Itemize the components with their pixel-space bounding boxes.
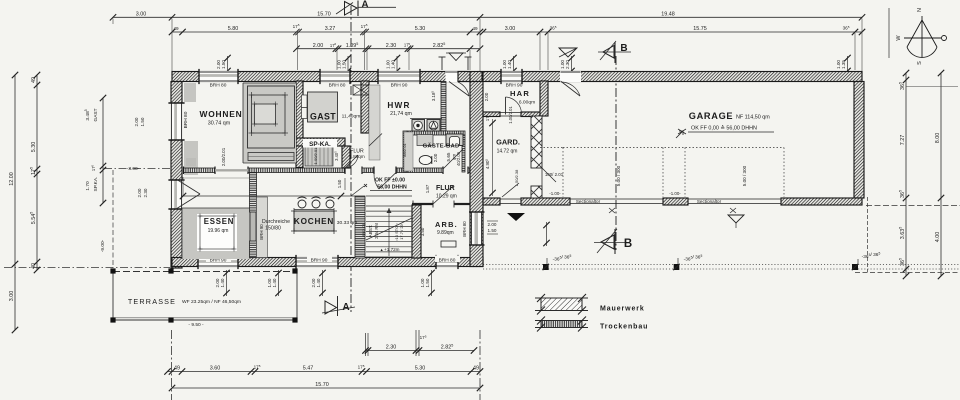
svg-text:12.00: 12.00 [9, 172, 15, 186]
svg-text:BRH 90: BRH 90 [506, 83, 523, 89]
svg-text:14.72 qm: 14.72 qm [497, 149, 518, 155]
svg-text:BRH 80: BRH 80 [183, 111, 189, 128]
svg-text:100/ 2.01: 100/ 2.01 [545, 172, 564, 177]
svg-text:NF 114,50 qm: NF 114,50 qm [736, 115, 770, 121]
svg-text:BRH 80: BRH 80 [210, 83, 227, 89]
svg-text:N: N [917, 8, 923, 12]
svg-text:HWR: HWR [387, 101, 410, 110]
svg-text:A: A [361, 0, 368, 11]
svg-text:4.00: 4.00 [935, 232, 941, 243]
svg-text:1.40: 1.40 [390, 60, 395, 69]
svg-text:BRH 80: BRH 80 [329, 83, 346, 89]
svg-text:WOHNEN: WOHNEN [200, 109, 243, 119]
svg-text:1.86qm: 1.86qm [349, 154, 364, 159]
svg-text:5.00 / 300: 5.00 / 300 [616, 165, 621, 186]
svg-text:150/80: 150/80 [265, 226, 281, 232]
svg-text:WF 23.25qm / NF 46,50qm: WF 23.25qm / NF 46,50qm [182, 299, 241, 305]
svg-text:BRH 90: BRH 90 [391, 83, 408, 89]
svg-text:BRH 80: BRH 80 [462, 221, 467, 237]
svg-text:2.00: 2.00 [484, 92, 489, 101]
svg-text:KOCHEN: KOCHEN [294, 217, 334, 226]
svg-text:▴ +1.72m: ▴ +1.72m [380, 247, 399, 252]
svg-text:2.30: 2.30 [386, 345, 397, 351]
svg-text:7.27: 7.27 [900, 135, 906, 146]
svg-text:-9.00-: -9.00- [100, 239, 106, 252]
svg-text:3.27: 3.27 [325, 26, 336, 32]
svg-text:5.65: 5.65 [446, 152, 451, 161]
svg-text:88/2.01: 88/2.01 [402, 143, 407, 157]
svg-text:3.50: 3.50 [420, 227, 425, 236]
svg-text:3.00: 3.00 [136, 12, 147, 18]
svg-text:GAST: GAST [310, 112, 336, 122]
svg-text:1.40: 1.40 [272, 278, 277, 287]
svg-text:2.34 RM: 2.34 RM [374, 223, 379, 239]
svg-text:2.30: 2.30 [386, 43, 397, 49]
svg-text:2.30: 2.30 [143, 188, 148, 197]
svg-text:1.50: 1.50 [221, 60, 226, 69]
svg-text:GAST: GAST [93, 108, 99, 121]
svg-text:SP.KA.: SP.KA. [93, 177, 99, 192]
svg-text:88/2.01: 88/2.01 [361, 223, 366, 237]
svg-text:1.87: 1.87 [425, 184, 430, 193]
svg-text:1.00/2.01: 1.00/2.01 [508, 106, 513, 124]
svg-text:3.60: 3.60 [210, 366, 221, 372]
svg-text:Trockenbau: Trockenbau [600, 324, 648, 331]
svg-text:W: W [896, 35, 902, 41]
svg-text:OK FF ±0.00: OK FF ±0.00 [375, 178, 405, 184]
svg-text:30.33 qm: 30.33 qm [337, 220, 357, 226]
svg-text:BRH 90: BRH 90 [311, 257, 328, 263]
svg-text:-1.00-: -1.00- [549, 191, 561, 196]
svg-text:SP-KA.: SP-KA. [309, 141, 331, 148]
svg-text:2.00: 2.00 [313, 43, 324, 49]
svg-text:40: 40 [31, 263, 37, 269]
svg-text:FLUR: FLUR [436, 185, 455, 192]
svg-text:ARB.: ARB. [435, 220, 458, 229]
svg-text:49: 49 [31, 77, 37, 83]
svg-text:21,74 qm: 21,74 qm [390, 111, 412, 117]
svg-text:19.48: 19.48 [661, 12, 675, 18]
svg-text:15.75: 15.75 [693, 26, 707, 32]
svg-text:17.7 / 29: 17.7 / 29 [399, 223, 404, 239]
svg-text:-1.00-: -1.00- [669, 191, 681, 196]
svg-text:Durchreiche: Durchreiche [262, 219, 290, 225]
svg-text:GARD.: GARD. [496, 138, 520, 147]
svg-text:HAR: HAR [510, 89, 530, 98]
svg-text:2.30: 2.30 [565, 60, 570, 69]
svg-text:1.50: 1.50 [140, 117, 145, 126]
svg-text:- 9.50 -: - 9.50 - [188, 322, 204, 328]
svg-text:1.50: 1.50 [425, 278, 430, 287]
svg-text:5.80: 5.80 [228, 26, 239, 32]
svg-text:1.70: 1.70 [85, 181, 91, 191]
svg-text:19.96 qm: 19.96 qm [208, 228, 229, 234]
svg-text:8.00: 8.00 [935, 133, 941, 144]
svg-text:GÄSTE-BAD: GÄSTE-BAD [423, 143, 460, 150]
svg-text:40/2.09: 40/2.09 [456, 151, 461, 166]
svg-text:GARAGE: GARAGE [689, 111, 734, 121]
svg-text:1.00/2.01: 1.00/2.01 [313, 147, 318, 164]
svg-text:S: S [917, 61, 923, 65]
svg-text:1.50: 1.50 [341, 60, 346, 69]
svg-text:49: 49 [174, 366, 180, 372]
svg-text:Sectionaltor: Sectionaltor [697, 199, 722, 204]
svg-text:1.40: 1.40 [220, 278, 225, 287]
svg-text:49: 49 [473, 366, 479, 372]
svg-text:BRH 90: BRH 90 [259, 224, 264, 240]
svg-text:6.00qm: 6.00qm [519, 100, 535, 106]
svg-text:10.29 qm: 10.29 qm [436, 194, 457, 200]
svg-text:5.30: 5.30 [415, 26, 426, 32]
svg-text:5.30: 5.30 [31, 142, 37, 153]
svg-text:A: A [342, 302, 349, 313]
svg-text:1.50: 1.50 [337, 179, 342, 188]
svg-text:5.00 / 300: 5.00 / 300 [742, 165, 747, 186]
svg-text:49: 49 [472, 26, 478, 31]
svg-text:15.70: 15.70 [315, 382, 329, 388]
svg-text:30.74 qm: 30.74 qm [208, 121, 231, 127]
svg-text:1.40: 1.40 [507, 60, 512, 69]
svg-text:OK FF 0,00 ≙ 56,00 DHHN: OK FF 0,00 ≙ 56,00 DHHN [691, 125, 757, 132]
svg-text:3.00: 3.00 [9, 291, 15, 302]
svg-text:2.00: 2.00 [134, 117, 139, 126]
svg-text:3.00: 3.00 [505, 26, 516, 32]
svg-text:B: B [620, 43, 627, 54]
svg-text:15.70: 15.70 [317, 12, 331, 18]
svg-text:5.30: 5.30 [415, 366, 426, 372]
svg-text:-3.00-: -3.00- [127, 166, 140, 172]
svg-text:9.89qm: 9.89qm [437, 230, 454, 236]
svg-text:1.40: 1.40 [316, 278, 321, 287]
svg-text:Sectionaltor: Sectionaltor [576, 199, 601, 204]
svg-text:56,00 DHHN: 56,00 DHHN [377, 185, 407, 191]
svg-text:ABST.: ABST. [368, 225, 373, 238]
svg-text:Mauerwerk: Mauerwerk [600, 306, 645, 313]
svg-text:5.47: 5.47 [303, 366, 314, 372]
svg-text:2.00: 2.00 [137, 188, 142, 197]
svg-text:BRH 80: BRH 80 [439, 257, 456, 263]
svg-text:B: B [624, 238, 632, 250]
svg-text:1.50/2.38: 1.50/2.38 [514, 169, 519, 186]
svg-text:2.00: 2.00 [488, 222, 497, 227]
svg-text:1.35: 1.35 [841, 60, 846, 69]
svg-text:TERRASSE: TERRASSE [128, 297, 176, 306]
svg-text:2.00/2.01: 2.00/2.01 [221, 147, 226, 166]
svg-text:49: 49 [173, 26, 179, 31]
svg-text:11,40qm: 11,40qm [342, 114, 361, 120]
svg-text:1.50: 1.50 [488, 228, 497, 233]
svg-text:2.00: 2.00 [433, 153, 438, 162]
svg-text:ESSEN: ESSEN [204, 217, 234, 226]
